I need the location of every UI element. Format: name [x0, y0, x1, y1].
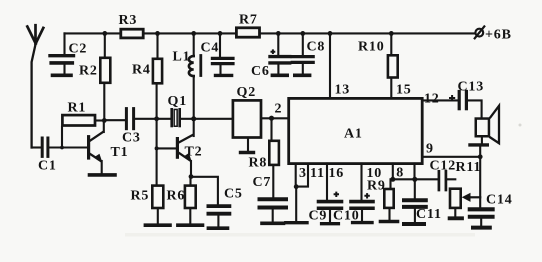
- node T1 collector junction: [102, 118, 107, 123]
- ground below T1: [90, 173, 116, 177]
- node rail-C4 junction: [218, 31, 223, 36]
- inductor L1: [189, 33, 201, 136]
- node rail-C6 junction: [276, 31, 281, 36]
- capacitor C5: [208, 206, 229, 226]
- plus C6: [271, 49, 276, 54]
- node R5-T2 base junction: [155, 146, 159, 150]
- svg-text:8: 8: [396, 166, 404, 181]
- svg-text:15: 15: [396, 83, 412, 98]
- potentiometer R11: [450, 189, 480, 216]
- svg-text:C14: C14: [486, 193, 513, 208]
- svg-text:C11: C11: [416, 207, 442, 222]
- transistor T2: [157, 135, 193, 177]
- svg-text:13: 13: [335, 83, 351, 98]
- svg-text:2: 2: [275, 102, 283, 117]
- svg-text:R8: R8: [249, 156, 268, 171]
- svg-text:R10: R10: [358, 40, 385, 55]
- ground below C6: [272, 74, 287, 78]
- op-amp IC A1 box: [289, 98, 423, 163]
- ground below Q2: [241, 151, 254, 154]
- svg-text:L1: L1: [173, 50, 191, 65]
- polarity plus marks: [271, 49, 456, 198]
- node rail-pin13 junction: [328, 31, 333, 36]
- resistor R8: [269, 118, 279, 196]
- svg-text:R9: R9: [367, 179, 386, 194]
- resistor R3: [121, 29, 143, 38]
- svg-text:A1: A1: [344, 127, 363, 142]
- capacitor C11: [404, 179, 426, 221]
- ground below R11: [450, 216, 462, 220]
- svg-text:C13: C13: [458, 80, 485, 95]
- wire pin9 to speaker and wiper: [423, 145, 480, 207]
- svg-text:C12: C12: [430, 159, 457, 174]
- svg-text:R7: R7: [239, 13, 258, 28]
- capacitor C8: [292, 33, 313, 73]
- wire T1 collector node to C3: [104, 119, 125, 121]
- svg-text:C8: C8: [307, 40, 326, 55]
- wire pin13 drop: [329, 33, 331, 98]
- svg-text:C9: C9: [309, 209, 328, 224]
- ground below R6: [178, 223, 203, 227]
- plus C13: [449, 95, 455, 101]
- svg-text:R3: R3: [119, 13, 138, 28]
- svg-text:C1: C1: [38, 159, 57, 174]
- svg-text:C4: C4: [201, 41, 220, 56]
- resistor R7: [236, 28, 259, 37]
- ground below C7: [262, 222, 284, 226]
- resistor R5: [152, 148, 163, 223]
- plus C9: [334, 192, 339, 197]
- ground below C14: [473, 226, 490, 230]
- svg-text:16: 16: [329, 166, 345, 181]
- capacitor C12: [439, 171, 446, 190]
- svg-text:T1: T1: [111, 145, 129, 160]
- node pin2-R8 junction: [269, 116, 274, 121]
- resistor R4: [153, 33, 162, 148]
- node C11 junction: [412, 177, 417, 182]
- wire Q2 to pin 2: [262, 117, 288, 119]
- resistor R10: [388, 33, 398, 98]
- svg-text:Q2: Q2: [237, 85, 257, 100]
- wire T2 emitter to C5: [191, 177, 218, 204]
- resistor R1: [62, 115, 104, 147]
- transistor T1: [89, 121, 104, 173]
- filter Q2: [233, 100, 261, 150]
- capacitor C1: [32, 138, 88, 156]
- wire IC bottom to C11 node: [413, 164, 415, 180]
- svg-text:C5: C5: [224, 187, 243, 202]
- svg-text:11: 11: [310, 166, 325, 181]
- capacitor C13: [459, 92, 481, 118]
- node R4-C3 junction: [154, 116, 159, 121]
- svg-text:12: 12: [424, 92, 440, 107]
- node pin9-speaker junction: [478, 154, 483, 159]
- ground below pins 3 11: [286, 221, 307, 224]
- node rail-C8 junction: [300, 31, 305, 36]
- node C1-R1 junction: [60, 146, 64, 150]
- wire Q1 to Q2: [181, 118, 232, 120]
- capacitor C14: [470, 209, 493, 225]
- svg-text:R1: R1: [68, 101, 87, 116]
- capacitor C6: [270, 33, 290, 73]
- svg-text:C3: C3: [122, 131, 141, 146]
- svg-text:9: 9: [426, 142, 434, 157]
- resistor R9: [384, 164, 393, 220]
- svg-text:Q1: Q1: [168, 94, 188, 109]
- capacitor C9: [319, 164, 342, 223]
- ground below C11: [404, 222, 424, 226]
- plus C10: [364, 193, 369, 198]
- ground below C5: [208, 226, 227, 230]
- capacitor C7: [260, 199, 287, 221]
- svg-text:C6: C6: [251, 64, 270, 79]
- svg-text:C7: C7: [253, 175, 272, 190]
- capacitor C2: [50, 33, 74, 73]
- wire top supply rail: [65, 32, 475, 34]
- node rail-L1 junction: [191, 31, 196, 36]
- antenna W1: [27, 25, 43, 147]
- svg-text:C2: C2: [69, 42, 88, 57]
- capacitor C4: [212, 33, 233, 73]
- ground below R5: [145, 223, 170, 227]
- node rail-R10 junction: [389, 31, 394, 36]
- node Q1-L1 junction: [191, 116, 196, 121]
- node pin8-R9 junction: [390, 177, 395, 182]
- ground below C10: [353, 221, 372, 224]
- svg-text:C10: C10: [333, 209, 360, 224]
- resistor R6: [185, 177, 196, 224]
- svg-text:T2: T2: [185, 145, 203, 160]
- crystal Q1: [172, 109, 180, 126]
- svg-text:+6B: +6B: [485, 28, 512, 43]
- capacitor C3: [126, 109, 170, 129]
- ground below C4: [216, 74, 232, 77]
- resistor R2: [100, 33, 110, 120]
- speaker BA1: [470, 106, 499, 145]
- ground below C2: [53, 74, 72, 78]
- svg-text:R2: R2: [79, 64, 98, 79]
- svg-text:R11: R11: [456, 160, 482, 175]
- ground below C8: [295, 74, 310, 78]
- ground below C9: [322, 222, 339, 225]
- wire pins 3 and 11 to ground: [296, 164, 308, 221]
- svg-text:3: 3: [299, 166, 307, 181]
- ground below R9: [381, 220, 398, 224]
- svg-text:R6: R6: [167, 189, 186, 204]
- svg-text:R4: R4: [132, 63, 151, 78]
- node rail-R4 junction: [155, 31, 160, 36]
- power terminal +6B: [475, 26, 485, 38]
- node pin3-11 junction: [294, 184, 299, 189]
- svg-text:R5: R5: [131, 189, 150, 204]
- wire pin8 node to R11: [393, 178, 456, 180]
- node T2 emitter junction: [189, 174, 194, 179]
- node rail-R2 junction: [102, 31, 107, 36]
- wire pin12 to C13: [423, 99, 457, 101]
- capacitor C10: [351, 164, 373, 222]
